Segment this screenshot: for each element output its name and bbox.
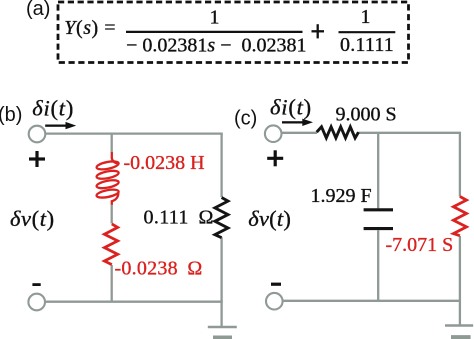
top terminal circle (b) [29, 126, 46, 143]
svg-text:(c): (c) [234, 107, 257, 129]
plus sign (c) [267, 150, 283, 166]
capacitor branch lower lead (c) [377, 230, 379, 301]
svg-text:δi(t): δi(t) [270, 94, 312, 119]
svg-text:Y(s) =: Y(s) = [64, 17, 116, 39]
bottom terminal circle (b) [28, 294, 45, 311]
top wire (b) [46, 132, 223, 134]
inductor L (b) red coil [96, 152, 119, 205]
svg-text:-0.0238 H: -0.0238 H [124, 152, 205, 174]
minus sign (b) [32, 283, 40, 286]
resistor -0.0238 ohm (b) red zigzag [104, 224, 117, 265]
bottom wire (c) [283, 300, 461, 302]
svg-text:9.000 S: 9.000 S [336, 103, 397, 125]
top wire right segment (c) [358, 132, 461, 134]
right branch lower lead to ground (c) [459, 236, 461, 326]
svg-text:(b): (b) [0, 104, 22, 126]
bottom wire (b) [45, 301, 223, 303]
right branch lower lead to ground (b) [220, 237, 222, 327]
minus sign (c) [271, 283, 281, 286]
svg-text:1: 1 [210, 7, 220, 29]
middle branch lower lead (b) [111, 265, 113, 302]
svg-text:− 0.02381s − 0.02381: − 0.02381s − 0.02381 [126, 34, 306, 56]
svg-text:-7.071 S: -7.071 S [386, 234, 454, 256]
svg-text:1.929 F: 1.929 F [311, 185, 372, 207]
wires (b) [45, 134, 223, 327]
plus sign in formula [312, 24, 325, 38]
bottom terminal circle (c) [266, 293, 283, 310]
resistor 0.111 ohm (b) black zigzag [215, 198, 228, 238]
resistor -7.071 S (c) red zigzag [453, 197, 466, 236]
svg-text:-0.0238 Ω: -0.0238 Ω [115, 258, 203, 280]
svg-text:1: 1 [361, 6, 371, 28]
middle branch upper lead (b) [111, 134, 113, 153]
ground (b) [208, 327, 237, 338]
svg-text:δi(t): δi(t) [32, 95, 74, 120]
dashed box around admittance formula [58, 2, 409, 63]
capacitor 1.929 F (c) [364, 210, 393, 229]
svg-text:δv(t): δv(t) [248, 206, 291, 231]
resistor 9.000 S (c) black horizontal zigzag [317, 127, 359, 138]
current arrow (b) [45, 122, 76, 129]
svg-text:0.1111: 0.1111 [340, 34, 394, 56]
capacitor branch upper lead (c) [377, 133, 379, 209]
ground (c) [445, 326, 473, 338]
right branch upper lead (b) [220, 134, 222, 197]
current arrow (c) [282, 119, 313, 126]
svg-text:(a): (a) [26, 0, 50, 20]
top wire left segment (c) [282, 132, 317, 134]
fraction 1 bar [126, 31, 303, 33]
right branch upper lead (c) [459, 133, 461, 197]
svg-text:0.111 Ω: 0.111 Ω [144, 207, 214, 229]
middle branch wire between L and R (b) [111, 205, 113, 224]
fraction 2 bar [339, 31, 396, 33]
plus sign (b) [29, 151, 45, 167]
wires (c) [282, 133, 461, 326]
svg-text:δv(t): δv(t) [10, 206, 55, 231]
top terminal circle (c) [265, 125, 282, 142]
